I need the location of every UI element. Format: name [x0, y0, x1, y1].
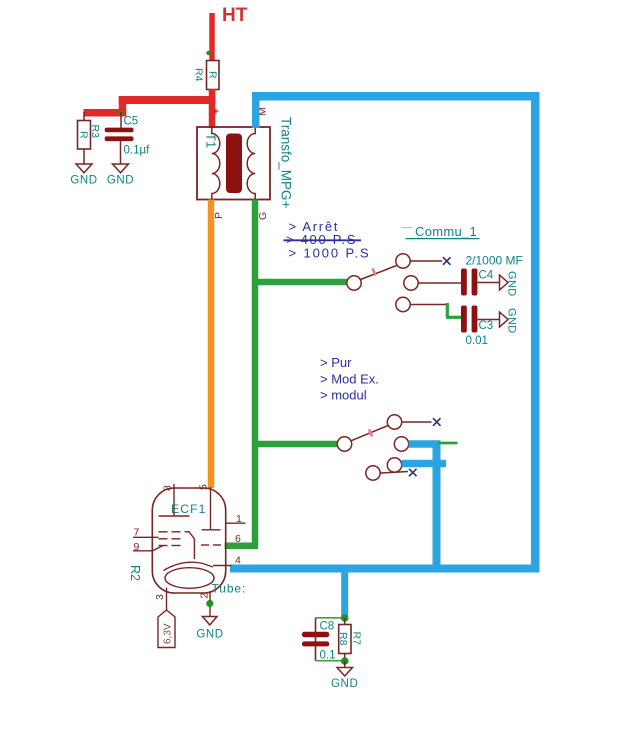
- svg-text:> Mod Ex.: > Mod Ex.: [320, 372, 379, 387]
- junction node C5 top: [119, 110, 124, 115]
- grid link to cathode: [188, 531, 194, 559]
- svg-text:Transfo_MPG+: Transfo_MPG+: [279, 117, 294, 209]
- label Commu_1: [401, 224, 480, 239]
- switch SW2 throw 4 contact: [366, 466, 408, 480]
- svg-text:+: +: [213, 104, 220, 118]
- svg-text:GND: GND: [331, 678, 358, 690]
- ground right of C3: [478, 308, 518, 334]
- svg-text:0.01: 0.01: [466, 335, 488, 347]
- switch SW2 throw 1 contact: [387, 415, 431, 429]
- svg-text:T1: T1: [204, 133, 219, 148]
- wire red elbow to R3 and C5: [84, 96, 127, 116]
- svg-text:> modul: > modul: [320, 388, 367, 403]
- svg-text:> 1000 P.S: > 1000 P.S: [289, 245, 371, 260]
- grid dashes row 3: [159, 545, 181, 547]
- wire blue bottom bus: [230, 565, 540, 573]
- ground below R7: [331, 661, 358, 690]
- svg-text:C5: C5: [124, 116, 139, 128]
- capacitor C4: [461, 269, 494, 296]
- svg-text:C4: C4: [479, 270, 494, 282]
- grid dashes before pin 6: [201, 544, 221, 546]
- svg-text:R7: R7: [351, 632, 363, 646]
- capacitor C8: [302, 621, 336, 662]
- svg-text:3: 3: [154, 594, 166, 600]
- wire blue stub to R7 C8: [341, 568, 348, 616]
- switch SW1 throw 3 contact: [396, 297, 448, 311]
- svg-text:C8: C8: [320, 621, 335, 633]
- svg-text:GND: GND: [506, 271, 518, 297]
- svg-text:GND: GND: [506, 308, 518, 334]
- wire green to C3: [446, 303, 461, 317]
- svg-text:8: 8: [162, 485, 174, 491]
- wire green branch to switch SW2: [255, 441, 338, 448]
- resistor R3: [78, 112, 102, 149]
- cathode: [164, 562, 214, 570]
- wire HT to R4: [209, 13, 215, 61]
- junction R7 top node: [341, 614, 349, 622]
- switch SW1 throw 1 contact: [396, 254, 442, 268]
- tube envelope: [152, 488, 225, 593]
- svg-text:G: G: [257, 212, 269, 220]
- svg-text:2: 2: [199, 593, 211, 599]
- svg-text:GND: GND: [107, 175, 134, 187]
- svg-text:2/1000 MF: 2/1000 MF: [466, 254, 523, 268]
- wire red horizontal bus: [119, 96, 216, 104]
- svg-text:4: 4: [235, 555, 241, 567]
- wire green branch to switch SW1: [255, 279, 347, 286]
- wire blue middle vertical: [433, 441, 441, 573]
- wire C8 loop: [316, 618, 342, 661]
- grid dashes row 2: [159, 538, 181, 540]
- no-connect x SW2 throw 4: [409, 469, 417, 476]
- junction R7 bottom node: [341, 657, 349, 665]
- wire green elbow to tube pin 6: [225, 542, 259, 549]
- svg-text:0.1: 0.1: [320, 650, 336, 662]
- svg-text:GND: GND: [196, 629, 223, 641]
- wire blue top bus: [252, 92, 540, 101]
- svg-text:R: R: [78, 131, 90, 139]
- wire blue stub to pin M: [252, 96, 260, 128]
- svg-text:6,3V: 6,3V: [163, 623, 174, 644]
- switch SW1 arm: [361, 266, 397, 280]
- wire orange pin P to tube pin 5: [208, 200, 215, 489]
- ground at tube pin 2: [196, 617, 223, 641]
- tube base ellipse: [165, 568, 214, 589]
- svg-text:R8: R8: [337, 632, 349, 646]
- label 400 P.S struck: [284, 232, 362, 247]
- svg-text:R2: R2: [128, 565, 142, 581]
- switch SW2 common contact: [337, 437, 351, 451]
- wire blue right bus: [531, 92, 540, 573]
- svg-text:Commu_1: Commu_1: [415, 224, 477, 239]
- resistor R4: [192, 61, 219, 90]
- switch SW1 throw 2 contact: [404, 276, 461, 290]
- svg-text:Tube:: Tube:: [212, 582, 247, 596]
- ground right of C4: [478, 271, 518, 297]
- svg-text:P: P: [213, 212, 225, 219]
- svg-text:> Pur: > Pur: [320, 355, 352, 370]
- switch SW2 arm: [351, 426, 388, 441]
- wire green bus from pin G: [252, 200, 259, 546]
- grid dashes row 1: [159, 531, 190, 533]
- transformer T1: [197, 127, 270, 200]
- wire cyan throw 2 to middle vertical: [409, 440, 441, 448]
- svg-text:0.1µf: 0.1µf: [124, 145, 151, 157]
- svg-text:HT: HT: [222, 5, 248, 26]
- junction at R4 top: [206, 51, 210, 55]
- svg-text:ECF1: ECF1: [171, 502, 206, 516]
- wire cyan throw 3 to middle vertical: [402, 460, 446, 468]
- junction tube pin 2: [206, 600, 213, 607]
- wire R4 to transformer plus pin: [209, 89, 216, 128]
- capacitor C3: [461, 306, 493, 348]
- capacitor C5: [105, 112, 150, 157]
- tube U2 ECF1: [128, 484, 246, 617]
- wire green stub right of vertical: [438, 442, 458, 445]
- switch SW1 common contact: [347, 276, 361, 290]
- hierarchical label 6,3V: [158, 610, 175, 648]
- no-connect x SW1 throw 1: [443, 257, 451, 265]
- ground under R3: [70, 149, 97, 187]
- svg-text:GND: GND: [70, 175, 97, 187]
- ground under C5: [107, 141, 134, 187]
- switch SW2 throw 3 contact: [387, 458, 401, 472]
- svg-text:R3: R3: [89, 125, 101, 139]
- no-connect x SW2 throw 1: [433, 418, 441, 426]
- resistor R7: [337, 618, 363, 661]
- svg-text:C3: C3: [479, 320, 494, 332]
- svg-text:6: 6: [235, 533, 241, 545]
- switch SW2 throw 2 contact: [394, 437, 408, 451]
- svg-text:R4: R4: [192, 68, 204, 82]
- svg-text:R: R: [207, 71, 219, 79]
- svg-text:5: 5: [198, 484, 210, 490]
